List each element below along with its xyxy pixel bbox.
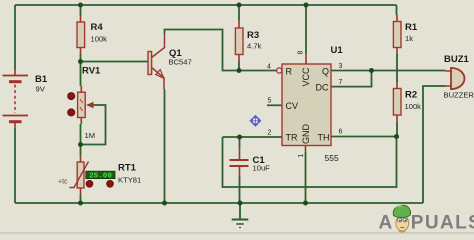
svg-text:GND: GND — [301, 124, 311, 145]
wire R3 top — [238, 5, 240, 20]
svg-text:555: 555 — [325, 153, 339, 163]
svg-text:CV: CV — [286, 101, 299, 111]
node rail RT1 junction — [78, 201, 83, 206]
svg-text:B1: B1 — [35, 74, 48, 85]
wire VCC drop to pin 8 — [305, 5, 307, 54]
node rail GND pin junction — [303, 201, 308, 206]
wire RT1 bottom to rail — [80, 194, 82, 203]
wire R2 bottom to TH net — [396, 122, 398, 137]
resistor R1 — [393, 15, 417, 54]
node base junction — [78, 59, 83, 64]
svg-text:A: A — [379, 213, 393, 234]
svg-text:1: 1 — [298, 153, 305, 157]
buzzer BUZ1 — [444, 54, 474, 100]
op-amp U1 555 timer — [267, 45, 343, 163]
svg-text:Q: Q — [322, 67, 329, 77]
svg-text:9V: 9V — [36, 85, 46, 94]
node C1 TR junction — [237, 135, 242, 140]
svg-text:TR: TR — [286, 133, 298, 143]
svg-text:5: 5 — [268, 98, 272, 105]
wire DC pin 7 riser — [331, 71, 372, 87]
wire R3 bottom to R-pin net — [238, 61, 240, 71]
svg-text:1k: 1k — [405, 34, 413, 43]
svg-text:R: R — [286, 67, 293, 77]
svg-text:2: 2 — [268, 130, 272, 137]
wire C1 top pin — [239, 137, 241, 148]
thermistor RT1 — [58, 155, 141, 194]
svg-text:R3: R3 — [247, 30, 259, 41]
node Q DC junction — [369, 68, 374, 73]
svg-text:4.7k: 4.7k — [247, 42, 262, 51]
svg-text:BC547: BC547 — [169, 58, 192, 67]
svg-text:TH: TH — [318, 133, 330, 143]
wire Q1 emitter to rail — [164, 90, 166, 204]
svg-text:PUALS: PUALS — [411, 213, 474, 234]
node junction top rail VCC — [304, 3, 309, 8]
wire RV1 bottom to RT1 top — [80, 124, 82, 155]
wire bottom ground rail — [15, 202, 423, 204]
node junction top rail R3 — [237, 3, 242, 8]
wire TR pin 2 — [223, 136, 283, 138]
wire GND pin 1 to rail — [305, 152, 307, 203]
svg-text:25.00: 25.00 — [89, 173, 112, 181]
svg-text:R1: R1 — [405, 22, 418, 33]
potentiometer RV1 — [68, 66, 101, 141]
wire C1 bottom to rail — [239, 176, 241, 203]
wire R4 top — [80, 5, 82, 16]
svg-text:+tc: +tc — [58, 179, 68, 186]
svg-text:8: 8 — [298, 50, 305, 54]
wire battery - to bottom rail — [14, 128, 16, 203]
svg-text:KTY81: KTY81 — [118, 176, 141, 185]
wire RV1 wiper loop — [82, 105, 106, 145]
transistor Q1 — [148, 34, 192, 90]
node junction top rail R4 — [78, 3, 83, 8]
svg-text:DC: DC — [316, 83, 329, 93]
svg-text:3: 3 — [339, 63, 343, 70]
svg-text:6: 6 — [339, 129, 343, 136]
wire R1 top corner — [396, 5, 398, 15]
svg-text:1M: 1M — [85, 131, 96, 140]
ground — [232, 203, 249, 228]
svg-text:VCC: VCC — [301, 67, 311, 87]
wire buzzer bottom riser — [423, 86, 446, 203]
wire Q1 collector to 555 R pin — [165, 30, 277, 71]
svg-text:RV1: RV1 — [82, 66, 101, 77]
svg-text:BUZ1: BUZ1 — [444, 54, 470, 65]
svg-text:7: 7 — [339, 79, 343, 86]
wire TH pin 6 — [331, 136, 397, 138]
svg-text:100k: 100k — [91, 35, 108, 44]
battery B1 — [3, 70, 48, 129]
wire left rail to battery + — [14, 5, 16, 70]
wire CV stub pin 5 — [267, 104, 282, 106]
resistor R4 — [77, 16, 107, 54]
svg-text:BUZZER: BUZZER — [444, 91, 474, 100]
node origin marker — [249, 115, 261, 127]
capacitor C1 — [230, 148, 271, 176]
resistor R3 — [235, 20, 261, 61]
node rail emitter junction — [162, 201, 167, 206]
wire R1 bottom to R2 top — [396, 54, 398, 82]
svg-text:U1: U1 — [331, 45, 344, 56]
svg-text:10uF: 10uF — [253, 164, 271, 173]
wire VCC top rail — [15, 4, 397, 6]
node wiper junction — [78, 142, 83, 147]
node R3 to R pin junction — [237, 68, 242, 73]
svg-text:R2: R2 — [405, 90, 417, 101]
wire base node: R4 bottom to Q1 base and RV1 top — [81, 54, 148, 86]
resistor R2 — [393, 82, 421, 122]
svg-text:RT1: RT1 — [118, 163, 137, 174]
wire TR-TH tie — [223, 137, 397, 188]
wire Q output pin 3 to buzzer — [331, 70, 446, 72]
watermark APPUALS logo — [379, 205, 474, 233]
svg-text:100k: 100k — [405, 102, 422, 111]
node rail C1 junction — [238, 201, 243, 206]
svg-text:R4: R4 — [91, 22, 104, 33]
node TH R2 junction — [394, 134, 399, 139]
svg-text:4: 4 — [267, 64, 271, 71]
